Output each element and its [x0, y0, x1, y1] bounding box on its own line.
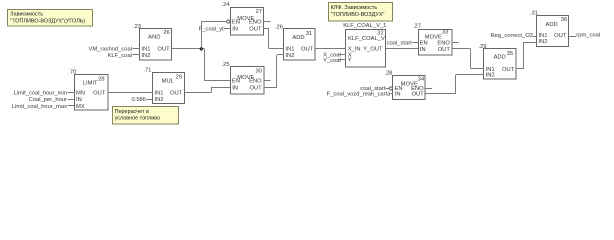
svg-text:F_coal_vozd_reah_carta: F_coal_vozd_reah_carta: [327, 92, 392, 98]
svg-text:IN: IN: [232, 86, 238, 92]
svg-text:EN: EN: [420, 40, 428, 46]
wire ADD36.OUT to rpm_coal: [568, 36, 575, 38]
svg-text:.23: .23: [133, 24, 141, 30]
svg-text:IN2: IN2: [154, 97, 163, 103]
svg-text:условное топливо: условное топливо: [115, 116, 161, 122]
op-block AND 26 (label .23): [133, 24, 172, 60]
wire F_coal_yt to MOVE27.IN: [224, 28, 230, 30]
op-block LIMIT 28 (label .70): [68, 70, 108, 111]
svg-text:OUT: OUT: [157, 47, 170, 53]
op-block ADD 36 (label .31): [530, 10, 569, 46]
svg-text:rpm_coal: rpm_coal: [576, 32, 600, 38]
wire MOVE33.ENO stub: [452, 42, 459, 44]
svg-text:IN2: IN2: [285, 53, 294, 59]
svg-text:ENO: ENO: [437, 40, 450, 46]
wire MOVE30.OUT to ADD31.IN2: [264, 87, 277, 89]
svg-text:.70: .70: [68, 70, 76, 76]
svg-text:ADD: ADD: [494, 55, 506, 61]
svg-text:ADD: ADD: [545, 22, 557, 28]
function block KLF_COAL_V_1 : KLF_COAL_V 32: [343, 23, 386, 67]
svg-text:30: 30: [255, 69, 261, 75]
svg-text:coal_start: coal_start: [387, 40, 413, 46]
wire coal_start to MOVE34.EN circle: [386, 88, 390, 90]
svg-text:Coal_per_hour: Coal_per_hour: [29, 97, 67, 103]
svg-text:OUT: OUT: [249, 26, 262, 32]
svg-text:IN: IN: [76, 97, 82, 103]
svg-text:IN: IN: [232, 26, 238, 32]
svg-text:.27: .27: [413, 23, 421, 29]
svg-text:MN: MN: [76, 90, 85, 96]
svg-text:AND: AND: [148, 35, 160, 41]
svg-text:Зависимость: Зависимость: [10, 12, 43, 18]
svg-text:.29: .29: [478, 44, 486, 50]
wire AND.OUT east: [171, 48, 204, 50]
svg-text:VM_rashod_coal: VM_rashod_coal: [88, 47, 132, 53]
wire F_coal_vozd_reah_carta to MOVE34.IN: [390, 93, 393, 95]
svg-text:31: 31: [306, 31, 312, 37]
op-block MOVE 33 (label .27): [413, 23, 452, 55]
wire down to MOVE30.EN level: [204, 49, 206, 81]
op-block MOVE 34 (label .28): [384, 70, 425, 99]
svg-text:OUT: OUT: [249, 86, 262, 92]
svg-text:29: 29: [176, 74, 182, 80]
svg-text:"ТОПЛИВО-ВОЗДУХ"(УГОЛЬ): "ТОПЛИВО-ВОЗДУХ"(УГОЛЬ): [10, 18, 85, 24]
svg-text:IN1: IN1: [141, 47, 150, 53]
svg-text:IN: IN: [395, 92, 401, 98]
svg-text:КЛФ. Зависимость: КЛФ. Зависимость: [331, 5, 378, 11]
svg-text:MX: MX: [76, 104, 85, 110]
wire KLF_COAL_V_1.Y_OUT to MOVE33.IN: [386, 48, 418, 50]
wire to MOVE30.EN: [204, 80, 230, 82]
svg-text:IN2: IN2: [486, 73, 495, 79]
svg-text:.71: .71: [143, 67, 151, 73]
svg-text:EN: EN: [232, 20, 240, 26]
svg-text:Y_coal: Y_coal: [323, 58, 341, 64]
svg-text:ENO: ENO: [249, 78, 262, 84]
wire to MOVE27.EN (negated): [201, 21, 226, 23]
svg-text:IN2: IN2: [141, 53, 150, 59]
svg-text:35: 35: [507, 51, 513, 57]
svg-text:.26: .26: [275, 25, 283, 31]
wire ADD31.OUT to KLF_COAL_V_1.X_IN: [315, 48, 346, 50]
svg-text:LIMIT: LIMIT: [83, 81, 98, 87]
svg-text:F_coal_yt: F_coal_yt: [199, 26, 225, 32]
svg-text:KLF_COAL_V: KLF_COAL_V: [348, 36, 385, 42]
svg-text:KLF_COAL_V_1: KLF_COAL_V_1: [343, 23, 386, 29]
svg-text:OUT: OUT: [438, 47, 451, 53]
svg-text:"ТОПЛИВО-ВОЗДУХ": "ТОПЛИВО-ВОЗДУХ": [331, 12, 385, 18]
svg-text:MUL: MUL: [162, 79, 175, 85]
wire MOVE27.ENO stub: [263, 21, 270, 23]
svg-text:OUT: OUT: [502, 67, 515, 73]
svg-text:Перерасчет в: Перерасчет в: [115, 109, 149, 115]
svg-text:Y: Y: [348, 58, 352, 64]
svg-text:OUT: OUT: [93, 90, 106, 96]
comment box: Pereraschet v uslovnoe toplivo: [113, 107, 179, 125]
wire MUL.OUT to MOVE30.IN: [184, 92, 211, 94]
svg-text:.31: .31: [530, 10, 538, 16]
svg-text:ADD: ADD: [292, 35, 304, 41]
svg-text:ENO: ENO: [249, 20, 262, 26]
svg-text:OUT: OUT: [301, 47, 314, 53]
wire LIMIT.OUT to MUL.IN1: [107, 92, 152, 94]
wire VM_rashod_coal to AND.IN1: [133, 48, 140, 50]
svg-text:33: 33: [442, 29, 448, 35]
svg-text:36: 36: [561, 17, 567, 23]
wire ADD35.OUT to ADD36.IN2: [516, 68, 524, 70]
svg-text:IN1: IN1: [285, 47, 294, 53]
svg-text:27: 27: [256, 9, 262, 15]
svg-text:.24: .24: [222, 2, 231, 8]
wire MOVE30.ENO stub: [264, 80, 271, 82]
wire X_coal to KLF_COAL_V_1.X: [338, 54, 346, 56]
svg-text:IN1: IN1: [538, 33, 547, 39]
svg-text:Y_OUT: Y_OUT: [363, 47, 383, 53]
wire coal_start to MOVE33.EN: [412, 42, 418, 44]
svg-text:34: 34: [418, 77, 425, 83]
op-block ADD 31 (label .26): [275, 25, 315, 61]
wire Coal_per_hour to LIMIT.IN: [68, 99, 75, 101]
comment box: Zavisimost TOPLIVO-VOZDUH (UGOL): [8, 10, 93, 27]
wire MOVE27.OUT to ADD31.IN1: [263, 28, 269, 30]
wire MOVE34.OUT to ADD35.IN2: [425, 93, 456, 95]
svg-text:Limit_coal_hour_min: Limit_coal_hour_min: [14, 90, 68, 96]
svg-text:Limit_coal_hour_max: Limit_coal_hour_max: [12, 104, 67, 110]
wire KLF_coal to AND.IN2: [133, 54, 140, 56]
svg-text:.25: .25: [222, 62, 230, 68]
comment box: KLF Zavisimost TOPLIVO-VOZDUH: [329, 3, 393, 22]
svg-text:.28: .28: [384, 70, 392, 76]
svg-text:IN1: IN1: [154, 91, 163, 97]
op-block MOVE 27 (label .24): [222, 2, 264, 35]
svg-text:28: 28: [98, 76, 104, 82]
svg-text:KLF_coal: KLF_coal: [108, 53, 133, 59]
svg-text:Reg_correct_O2: Reg_correct_O2: [490, 33, 533, 39]
svg-text:0.586: 0.586: [131, 97, 146, 103]
wire Limit_coal_hour_min to LIMIT.MN: [68, 92, 75, 94]
wire 0.586 to MUL.IN2: [147, 99, 153, 101]
op-block ADD 35 (label .29): [478, 44, 516, 79]
op-block MUL 29 (label .71): [143, 67, 184, 103]
svg-text:EN: EN: [232, 78, 240, 84]
wire Reg_correct_O2 to ADD36.IN1: [533, 36, 536, 38]
junction node on AND.OUT net: [200, 47, 203, 50]
svg-text:OUT: OUT: [170, 91, 183, 97]
svg-text:26: 26: [163, 30, 169, 36]
svg-text:IN2: IN2: [538, 39, 547, 45]
svg-text:OUT: OUT: [411, 92, 424, 98]
wire MOVE33.OUT to ADD35.IN1: [452, 48, 471, 50]
op-block MOVE 30 (label .25): [222, 62, 264, 94]
svg-text:OUT: OUT: [554, 33, 567, 39]
wire junction up to MOVE27.EN level: [201, 22, 203, 49]
wire MOVE34.ENO stub: [425, 88, 432, 90]
wire Limit_coal_hour_max to LIMIT.MX: [68, 105, 75, 107]
svg-text:IN: IN: [420, 47, 426, 53]
wire Y_coal to KLF_COAL_V_1.Y: [338, 59, 346, 61]
